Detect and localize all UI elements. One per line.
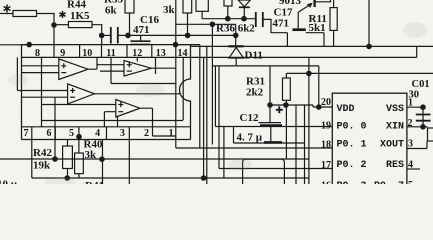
- op-amp U1a triangle: [59, 59, 88, 80]
- IC pin row inner line top, continuing as wire to right: [22, 56, 417, 58]
- svg-text:17: 17: [321, 160, 331, 171]
- pin 4 wire: [407, 168, 420, 170]
- svg-text:1K5: 1K5: [70, 10, 90, 22]
- wire node to resistor 1K5: [54, 24, 68, 26]
- pin 1 wire to node: [407, 106, 423, 108]
- svg-text:471: 471: [273, 18, 290, 30]
- pin cell dividers bottom: [55, 127, 106, 140]
- diode D11 anode wire: [235, 35, 237, 46]
- vertical wire below pin 3: [128, 127, 130, 184]
- thick bar under transistor: [292, 28, 305, 31]
- node junction on pin5 divider: [76, 134, 82, 140]
- wire diode to node: [243, 7, 245, 18]
- svg-text:9: 9: [60, 48, 65, 59]
- svg-text:P0. 3: P0. 3: [337, 181, 367, 184]
- svg-text:P0. 2: P0. 2: [337, 160, 367, 171]
- capacitor C12 plus mark: [276, 106, 283, 113]
- svg-text:P0. 0: P0. 0: [337, 122, 367, 133]
- wire y105 to MCU pin 20: [270, 105, 333, 107]
- stub below pin 13: [155, 57, 157, 74]
- vertical wire x223.9: [223, 127, 225, 179]
- diode at top (clipped): [238, 0, 250, 7]
- stub pin6 to node: [54, 97, 56, 159]
- vertical x183.2: [182, 57, 184, 120]
- resistor middle: [75, 153, 84, 174]
- pin 2 wire to node: [407, 126, 423, 128]
- capacitor C16 plates: [111, 27, 118, 44]
- resistor (clipped at top): [224, 0, 232, 6]
- wire rail jog to y57 rail: [416, 46, 418, 57]
- diode cathode bar: [239, 6, 250, 8]
- wire node to right bend down: [176, 44, 200, 46]
- svg-text:4: 4: [95, 128, 100, 139]
- vertical bus x206.8: [206, 46, 208, 184]
- U1d plus input mark: [118, 102, 123, 107]
- svg-text:18: 18: [321, 140, 331, 151]
- vertical to pin17 wire: [219, 66, 332, 169]
- wire U1b output routing: [151, 67, 176, 69]
- svg-text:471: 471: [133, 24, 150, 36]
- wire U1a minus input: [22, 72, 59, 74]
- wire U1c plus input: [17, 57, 67, 90]
- capacitor C12 top plate: [259, 122, 282, 124]
- vertical x308.9: [308, 57, 310, 184]
- asterisk mark left of R44: [4, 5, 11, 13]
- stub node down to box edge: [101, 35, 103, 44]
- wire left edge to node: [0, 44, 29, 46]
- svg-text:10: 10: [82, 48, 92, 59]
- wire between nodes: [422, 107, 424, 127]
- wire U1b minus input: [100, 70, 124, 72]
- vertical x296: [295, 105, 297, 185]
- wire y158.5 bus: [0, 158, 309, 160]
- wire R33 down to node: [129, 13, 131, 35]
- svg-text:13: 13: [156, 48, 166, 59]
- wire U1d output routing to pin row: [140, 108, 176, 136]
- svg-text:C12: C12: [240, 112, 259, 124]
- diode D11 cathode bar: [228, 45, 243, 47]
- wire D11 down to y65.9 net: [235, 58, 237, 66]
- resistor R33 (clipped at top): [125, 0, 134, 13]
- svg-text:3k: 3k: [163, 4, 176, 16]
- node junction: [185, 33, 191, 39]
- wire U1c minus input: [22, 96, 68, 98]
- node junction on box top edge: [26, 42, 32, 48]
- svg-text:P0. 1: P0. 1: [337, 140, 367, 151]
- wire R42 bottom: [67, 168, 69, 178]
- svg-text:20: 20: [321, 97, 331, 108]
- node junction: [316, 104, 322, 110]
- node junction pin13/14: [173, 42, 179, 48]
- svg-text:5k1: 5k1: [309, 22, 326, 34]
- node junction: [64, 175, 70, 181]
- resistor 3k vertical (clipped at top): [183, 0, 192, 13]
- stub under U1d: [117, 117, 119, 127]
- wire R11 bottom to rail: [333, 30, 335, 46]
- resistor R42: [63, 146, 73, 169]
- svg-text:10 µ: 10 µ: [0, 179, 18, 185]
- diode D11 triangle: [229, 47, 244, 58]
- node junction: [233, 33, 239, 39]
- svg-text:C01: C01: [412, 79, 430, 90]
- svg-text:19: 19: [321, 121, 331, 132]
- resistor R44: [13, 11, 37, 17]
- vertical x199.8 to pin18 wire: [199, 45, 201, 148]
- transistor collector wire (clipped): [315, 0, 331, 2]
- svg-text:3k: 3k: [85, 149, 98, 161]
- wire y73.4 to right edge: [309, 72, 433, 74]
- wire y18.7 net: [202, 18, 255, 20]
- wire y143 bus: [234, 127, 305, 144]
- op-amp IC box outline: [22, 45, 191, 140]
- node junction: [366, 44, 372, 50]
- resistor R11: [330, 8, 337, 31]
- U1c plus input mark: [70, 88, 75, 93]
- svg-text:VSS: VSS: [386, 104, 404, 115]
- wire x318.8 down to pin20: [318, 66, 320, 107]
- op-amp U1c triangle: [68, 84, 95, 104]
- svg-text:19k: 19k: [33, 160, 51, 172]
- svg-text:VDD: VDD: [337, 104, 355, 115]
- stub pin 11 down: [110, 57, 112, 83]
- divider 5|4 upper segment: [78, 127, 80, 137]
- node junction: [210, 22, 216, 28]
- wire U1a plus input: [22, 65, 59, 67]
- bottom-left vertical from pin7 area: [31, 127, 33, 178]
- node junction: [306, 71, 312, 77]
- pin cell dividers top: [80, 45, 152, 58]
- vertical wire below pin 4: [102, 140, 104, 185]
- wire U1d minus input: [104, 112, 115, 127]
- top rail wire y46.4: [191, 45, 433, 47]
- wire y148 to pin 18: [176, 147, 332, 149]
- node junction: [99, 156, 105, 162]
- pin 3 wire: [407, 141, 427, 149]
- wire main node bus: [128, 34, 236, 36]
- capacitor 471 stub to pin 12: [140, 35, 142, 41]
- wire middle resistor bottom: [78, 174, 80, 178]
- U1a minus input mark: [61, 72, 66, 74]
- capacitor plate upper: [131, 40, 151, 42]
- op-amp U1d triangle: [116, 100, 140, 118]
- wire U1c output long: [95, 93, 182, 95]
- wire U1a output up to pin row: [88, 57, 97, 69]
- svg-text:R41: R41: [85, 180, 104, 184]
- wire R31 bottom to node: [285, 100, 287, 105]
- svg-text:1: 1: [169, 128, 174, 139]
- wire C17 right bend: [263, 19, 287, 46]
- svg-text:6k: 6k: [105, 5, 118, 17]
- wire 1K5 to node: [92, 25, 102, 36]
- vertical bus x203.6: [203, 57, 205, 178]
- wire y83.5 bus: [111, 83, 176, 85]
- wire resistor down: [201, 11, 203, 18]
- wire C12 down: [270, 126, 272, 144]
- wire C16 to node: [118, 34, 128, 36]
- resistor 1K5: [68, 22, 92, 28]
- wire bar to R11 net: [306, 33, 324, 47]
- svg-text:2k2: 2k2: [246, 87, 264, 99]
- svg-text:14: 14: [178, 48, 188, 59]
- svg-text:RES: RES: [386, 160, 404, 171]
- svg-text:2: 2: [144, 128, 149, 139]
- vertical from y65.9 down to C12: [269, 66, 271, 123]
- capacitor plate lower on box edge: [131, 43, 151, 45]
- crystal box (clipped at right): [428, 128, 433, 141]
- wire 3k resistor to node: [187, 13, 189, 35]
- wire U1d plus input: [42, 104, 116, 106]
- resistor R31: [283, 78, 291, 100]
- thick bar below C12: [264, 141, 282, 144]
- wire y65.9 net: [212, 65, 318, 67]
- U1b plus input mark: [127, 62, 132, 67]
- wire node to C16: [102, 34, 111, 36]
- wire R36 row: [176, 24, 236, 35]
- node junction: [201, 175, 207, 181]
- wire into R44 from left edge: [0, 13, 13, 15]
- capacitor C01 plates: [416, 115, 431, 121]
- node junction: [267, 102, 273, 108]
- svg-text:3: 3: [408, 139, 413, 150]
- svg-text:5: 5: [408, 180, 413, 184]
- svg-text:5: 5: [69, 128, 74, 139]
- U1a plus input mark: [61, 63, 66, 68]
- transistor base bar: [313, 0, 315, 7]
- svg-text:XOUT: XOUT: [380, 140, 404, 151]
- svg-text:R42: R42: [33, 147, 52, 159]
- svg-text:16: 16: [321, 181, 331, 185]
- wire node down to y158.5 bus: [285, 105, 287, 159]
- resistor (clipped at top) above R36 node: [196, 0, 208, 11]
- node junction: [420, 124, 426, 130]
- wire y177 bus: [32, 177, 309, 179]
- wire y120 feedback: [42, 120, 184, 122]
- wire resistor down to node: [227, 6, 229, 19]
- U1c minus input mark: [70, 96, 75, 98]
- long vertical through box at x175.5: [175, 0, 177, 148]
- wire R11 top (clipped): [333, 0, 335, 8]
- svg-text:30: 30: [409, 90, 420, 101]
- wire node down to pin row: [53, 25, 55, 57]
- node junction: [51, 22, 57, 28]
- op-amp U1b triangle: [124, 61, 151, 77]
- capacitor C12 bottom plate: [260, 124, 282, 126]
- node junction: [283, 102, 289, 108]
- transistor emitter lead down: [297, 12, 299, 28]
- node junction: [241, 16, 247, 22]
- svg-text:6: 6: [47, 128, 52, 139]
- wire node to crystal: [423, 126, 428, 128]
- svg-text:9013: 9013: [279, 0, 302, 7]
- svg-text:XIN: XIN: [386, 122, 404, 133]
- node junction: [225, 16, 231, 22]
- U1d minus input mark: [118, 111, 123, 113]
- asterisk mark left of 1K5: [60, 11, 66, 18]
- svg-text:P0. 7: P0. 7: [374, 181, 404, 184]
- vertical bus x212.4 with y65.9 net: [211, 24, 213, 144]
- wire R31 top to node: [286, 73, 309, 78]
- IC box right edge with notch: [180, 45, 191, 140]
- capacitor C17 plates: [256, 12, 263, 27]
- node junction: [420, 104, 426, 110]
- svg-text:R44: R44: [67, 0, 86, 11]
- svg-text:7: 7: [24, 128, 29, 139]
- IC pin row inner line bottom: [22, 126, 191, 128]
- svg-text:8: 8: [35, 48, 40, 59]
- svg-text:12: 12: [132, 48, 142, 59]
- node junction: [125, 33, 131, 39]
- node junction: [99, 33, 105, 39]
- U1b minus input mark: [127, 70, 132, 72]
- node junction: [52, 156, 58, 162]
- vertical feed x44.9: [41, 57, 43, 126]
- svg-text:4. 7 µ: 4. 7 µ: [237, 132, 263, 144]
- svg-text:D11: D11: [245, 50, 263, 62]
- transistor Q 9013 emitter arrow: [298, 4, 311, 12]
- MCU IC box: [332, 93, 407, 190]
- wire U1b plus input: [97, 64, 124, 66]
- svg-text:11: 11: [106, 48, 115, 59]
- vertical x304.5: [304, 105, 306, 185]
- wire from top edge down to rail: [368, 0, 370, 46]
- rounded rectangle component box bottom middle: [243, 159, 285, 189]
- wire middle resistor top: [78, 137, 80, 153]
- vertical to pin19 wire: [215, 66, 332, 127]
- wire R44 to corner: [37, 14, 55, 26]
- wire R42 top: [67, 140, 69, 147]
- stub pin 12 to U1b: [136, 57, 138, 61]
- svg-text:3: 3: [120, 128, 125, 139]
